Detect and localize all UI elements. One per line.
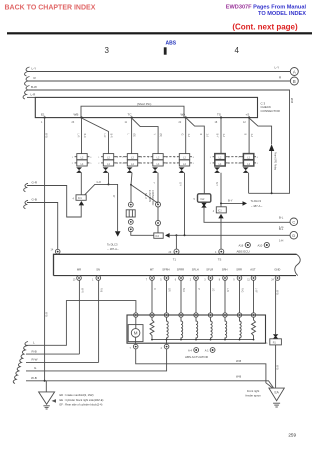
svg-text:A10: A10 xyxy=(258,244,263,248)
bus squiggle marks xyxy=(25,67,30,76)
wire TS vertical xyxy=(220,173,222,207)
svg-text:R: R xyxy=(153,288,156,290)
svg-text:L-B: L-B xyxy=(226,288,229,292)
svg-text:B-W: B-W xyxy=(31,85,37,89)
ground triangle EA xyxy=(269,388,284,401)
wire WB drops xyxy=(81,118,83,154)
svg-text:(B): (B) xyxy=(133,134,136,137)
branch to DLC3 right xyxy=(221,202,243,204)
wire R to B xyxy=(28,80,291,82)
ECU terminal TS xyxy=(219,249,224,254)
ABS actuator box xyxy=(127,315,266,343)
svg-text:A16: A16 xyxy=(239,244,244,248)
actuator bottom terminals xyxy=(133,344,138,349)
ground triangle left xyxy=(39,392,55,404)
bottom squiggles xyxy=(13,342,28,384)
svg-text:SRR: SRR xyxy=(236,267,242,271)
svg-text:(Short Pin): (Short Pin) xyxy=(137,102,151,106)
connector pair at x=108.5 xyxy=(103,154,113,160)
connector pair at x=132.5 xyxy=(127,154,137,160)
connector pair at x=82 xyxy=(77,154,87,160)
svg-text:W-B: W-B xyxy=(236,359,241,363)
svg-text:TO MODEL INDEX: TO MODEL INDEX xyxy=(258,11,306,17)
svg-text:To DLC3: To DLC3 xyxy=(107,243,118,247)
ABS ECU box xyxy=(54,254,297,275)
connector circle C xyxy=(290,218,298,226)
solenoid coils xyxy=(167,317,169,339)
svg-text:A: A xyxy=(293,69,296,74)
connector pair at x=248.6 xyxy=(243,154,253,160)
connector pair at x=184.5 xyxy=(179,154,189,160)
short pin box xyxy=(81,106,184,117)
svg-text:R-W: R-W xyxy=(32,358,38,362)
bowtie above R1 xyxy=(273,334,278,337)
note arrow xyxy=(52,399,57,403)
svg-text:G-B: G-B xyxy=(32,198,37,202)
svg-text:SN: SN xyxy=(96,267,100,271)
wire E1 drop xyxy=(44,118,46,381)
junction connector IC1 xyxy=(76,195,86,201)
svg-text:IC4: IC4 xyxy=(155,235,159,238)
svg-text:A 4: A 4 xyxy=(188,349,192,353)
wire L-Y to A xyxy=(28,71,291,73)
svg-text:B-R: B-R xyxy=(83,134,86,138)
wire B-W right route xyxy=(28,90,290,193)
ECU terminal T1 xyxy=(174,249,179,254)
wire L-R stub xyxy=(27,96,35,98)
wire G to actuator xyxy=(26,349,167,371)
svg-text:←187-A←: ←187-A← xyxy=(107,247,120,251)
svg-text:B-R: B-R xyxy=(110,134,113,138)
svg-text:MR: MR xyxy=(77,267,81,271)
svg-text:SRH: SRH xyxy=(222,267,228,271)
wire motor return xyxy=(136,349,273,388)
connector circle A xyxy=(290,68,298,76)
diagonal IC1 to DLC3 node xyxy=(85,184,109,194)
svg-text:L-R: L-R xyxy=(31,93,37,97)
bowtie under IG2 xyxy=(201,203,206,207)
svg-text:G-R: G-R xyxy=(32,181,38,185)
svg-text:SFRR: SFRR xyxy=(177,267,184,271)
column tick xyxy=(164,47,167,54)
wire pair82 to IC1 xyxy=(80,173,82,195)
svg-text:TS: TS xyxy=(218,258,222,262)
motor unit box xyxy=(128,325,143,342)
actuator internal bus xyxy=(152,339,254,341)
svg-text:L-R: L-R xyxy=(77,134,80,138)
wire W-B ground bus xyxy=(26,381,274,388)
svg-text:ABS ACTUATOR: ABS ACTUATOR xyxy=(185,355,209,359)
arrow under IC3 xyxy=(218,214,223,219)
dashes between pairs xyxy=(116,156,126,158)
svg-text:To DLC3: To DLC3 xyxy=(251,199,262,203)
svg-text:L-Y: L-Y xyxy=(32,67,37,71)
wire R-B to MR xyxy=(26,353,79,355)
svg-text:No. 2: No. 2 xyxy=(144,193,147,199)
svg-text:BACK TO CHAPTER INDEX: BACK TO CHAPTER INDEX xyxy=(5,5,96,12)
svg-text:R-G: R-G xyxy=(241,288,244,293)
svg-text:259: 259 xyxy=(288,432,296,437)
svg-text:GR: GR xyxy=(168,288,171,292)
svg-text:R-B: R-B xyxy=(100,288,103,293)
terminal TC xyxy=(131,116,133,118)
junction connector IC3 xyxy=(216,207,226,213)
arrow into IC4 xyxy=(165,233,170,238)
long wire to circle D xyxy=(170,234,290,236)
arrow down To DLC3 xyxy=(115,231,121,236)
ECU terminal for G-B xyxy=(55,249,60,254)
relay R1 box xyxy=(270,339,282,345)
junction connector IG2 on WA line xyxy=(198,194,211,202)
svg-text:WB: WB xyxy=(74,113,79,117)
svg-text:4: 4 xyxy=(235,46,240,55)
svg-text:B-R: B-R xyxy=(182,288,185,292)
svg-text:L-R: L-R xyxy=(103,134,106,138)
svg-text:C: C xyxy=(292,220,295,225)
svg-text:Front right: Front right xyxy=(247,389,260,393)
svg-text:ABS: ABS xyxy=(166,40,177,46)
svg-text:SFRH: SFRH xyxy=(162,267,169,271)
right resistor zigzag xyxy=(252,317,256,339)
svg-text:EWD307F Pages From Manual: EWD307F Pages From Manual xyxy=(226,5,307,11)
svg-text:B-Y: B-Y xyxy=(216,134,219,138)
wire WA drops xyxy=(185,118,187,154)
SPD relay arrow xyxy=(269,144,274,151)
svg-text:M: M xyxy=(134,331,138,336)
svg-text:IG2: IG2 xyxy=(201,198,206,201)
wire pair248 down to B-W route xyxy=(248,173,250,194)
svg-text:MT: MT xyxy=(150,267,154,271)
wire pair108 to DLC3 arrow xyxy=(108,173,110,185)
wire +S drops xyxy=(248,118,250,154)
svg-text:EE : Cylinder block right side: EE : Cylinder block right side(1RZ-E) xyxy=(60,398,104,402)
connector pair at x=158 xyxy=(153,154,163,160)
ground stub left xyxy=(45,381,47,392)
wire TC drops xyxy=(131,118,133,154)
svg-text:ABS ECU: ABS ECU xyxy=(237,250,250,254)
svg-text:B: B xyxy=(293,79,296,84)
svg-text:G-Y: G-Y xyxy=(179,182,182,187)
svg-text:T1: T1 xyxy=(173,258,177,262)
connector pair at x=220 xyxy=(215,154,225,160)
wire TS drop xyxy=(220,118,222,154)
svg-text:1-G: 1-G xyxy=(279,225,283,229)
svg-text:WA: WA xyxy=(181,113,186,117)
svg-text:(B): (B) xyxy=(159,134,162,137)
arrow under IC1 xyxy=(79,201,84,205)
svg-text:B-Y: B-Y xyxy=(228,199,233,203)
svg-text:A 1: A 1 xyxy=(205,349,209,353)
wires ECU to actuator xyxy=(166,280,168,313)
svg-text:D: D xyxy=(292,233,295,238)
wire GND down xyxy=(275,280,277,334)
svg-text:W-B: W-B xyxy=(275,290,278,295)
svg-text:W-B: W-B xyxy=(236,375,241,379)
svg-text:Front SPD Relay: Front SPD Relay xyxy=(273,152,276,171)
wire G-B to ECU xyxy=(27,203,58,250)
motor M xyxy=(131,329,140,338)
svg-text:W-B: W-B xyxy=(45,133,48,138)
svg-text:IC3: IC3 xyxy=(218,210,222,213)
left resistor zigzag xyxy=(150,317,154,339)
actuator top terminals xyxy=(134,313,138,317)
No2 junction connector circles xyxy=(156,202,161,207)
diagonal to 158 chain xyxy=(131,185,158,203)
check connector band box xyxy=(35,97,257,117)
svg-text:W-B: W-B xyxy=(45,312,48,317)
terminal E1 xyxy=(44,116,46,118)
wire MR down xyxy=(78,280,80,354)
junction connector IC4 xyxy=(154,233,163,238)
wire pair184 drop xyxy=(184,173,186,236)
connector circle B xyxy=(290,77,298,85)
wire SN down xyxy=(98,280,100,362)
terminal WB xyxy=(80,116,82,118)
svg-text:AST: AST xyxy=(250,267,256,271)
svg-text:←187-A←: ←187-A← xyxy=(251,204,264,208)
terminal WA xyxy=(185,116,187,118)
svg-text:EF : Rear side of cylinder blo: EF : Rear side of cylinder block(2-4) xyxy=(60,403,103,407)
svg-text:L-W: L-W xyxy=(255,288,258,293)
svg-text:W-R: W-R xyxy=(80,288,83,293)
svg-text:W-B: W-B xyxy=(276,365,279,370)
svg-text:TS: TS xyxy=(217,113,221,117)
svg-text:SFLR: SFLR xyxy=(206,267,213,271)
wire R-W to SN xyxy=(26,361,99,363)
svg-text:SFLH: SFLH xyxy=(192,267,199,271)
svg-text:B-L: B-L xyxy=(279,216,284,220)
svg-text:1-H: 1-H xyxy=(279,238,283,242)
svg-text:ED : Intake manifold(3, 1NZ): ED : Intake manifold(3, 1NZ) xyxy=(60,393,94,397)
wire to circle C xyxy=(204,208,290,223)
svg-text:IC1: IC1 xyxy=(78,197,82,200)
svg-text:+S: +S xyxy=(246,113,250,117)
terminal TS xyxy=(220,116,222,118)
svg-text:CONNECTOR: CONNECTOR xyxy=(261,109,281,113)
svg-text:LG: LG xyxy=(212,288,215,291)
wire pair132 chain xyxy=(131,173,132,185)
wire L to motor xyxy=(26,301,136,346)
wire R1 to ground xyxy=(275,345,277,388)
wire IC3 to TS terminal xyxy=(220,218,222,249)
top rule xyxy=(7,32,312,34)
svg-text:GND: GND xyxy=(274,267,280,271)
fuse style box xyxy=(126,210,135,217)
svg-text:3: 3 xyxy=(105,46,110,55)
junction circle chain x131 xyxy=(128,202,133,207)
svg-text:(Cont. next page): (Cont. next page) xyxy=(232,23,298,32)
wire pair158 chain xyxy=(157,173,159,202)
terminal +S xyxy=(248,116,250,118)
svg-text:R-B: R-B xyxy=(32,349,37,353)
drop to T1 xyxy=(175,235,177,249)
svg-text:G-R: G-R xyxy=(97,181,102,184)
svg-text:L-Y: L-Y xyxy=(275,66,280,70)
svg-text:B-Y: B-Y xyxy=(215,182,218,186)
svg-text:G: G xyxy=(180,134,183,136)
svg-text:E1: E1 xyxy=(41,113,45,117)
svg-text:fender apron: fender apron xyxy=(246,394,262,398)
svg-text:W-B: W-B xyxy=(31,376,37,380)
wire G-R routing xyxy=(27,186,81,218)
connector circle D xyxy=(290,231,298,239)
svg-text:CONNECTOR: CONNECTOR xyxy=(151,190,154,206)
